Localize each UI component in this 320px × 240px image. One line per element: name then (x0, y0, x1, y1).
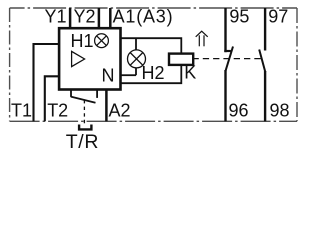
svg-text:97: 97 (268, 7, 288, 27)
svg-text:N: N (102, 66, 115, 86)
svg-text:K: K (184, 63, 196, 83)
svg-text:H2: H2 (142, 63, 165, 83)
svg-text:95: 95 (229, 7, 249, 27)
svg-text:Y2: Y2 (74, 7, 96, 27)
svg-text:T2: T2 (47, 100, 68, 120)
svg-text:96: 96 (229, 100, 249, 120)
svg-text:T/R: T/R (66, 131, 100, 152)
svg-text:A1(A3): A1(A3) (113, 7, 174, 27)
svg-text:H1: H1 (71, 31, 94, 51)
svg-text:T1: T1 (11, 100, 32, 120)
svg-text:98: 98 (270, 100, 290, 120)
svg-text:Y1: Y1 (45, 7, 67, 27)
svg-text:A2: A2 (109, 100, 131, 120)
